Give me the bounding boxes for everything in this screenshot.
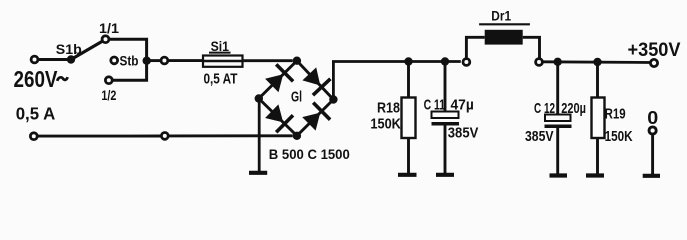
wire 0,5A to connector [38,135,162,138]
node bridge right corner [329,95,337,103]
terminal +350V [650,59,657,66]
svg-text:385V: 385V [525,128,554,145]
svg-text:Stb: Stb [120,53,139,69]
svg-text:220µ: 220µ [561,100,586,117]
contact 1/1 [102,36,109,43]
node R18 junction [404,57,412,65]
switch S1b pivot [67,55,75,63]
connector terminal bottom [161,133,168,140]
capacitor C11 [444,62,447,112]
switch S1b blade [71,41,102,59]
contact 1/2 [105,77,112,84]
svg-text:Si1: Si1 [211,38,230,54]
svg-text:S1b: S1b [56,41,82,57]
wire 0 terminal down [651,134,654,174]
wire fuse to bridge top [243,59,293,62]
svg-text:0,5 A: 0,5 A [16,104,56,124]
node C11 junction [441,57,449,65]
wire connector to bridge bottom corner [169,134,293,137]
node R19 junction [593,58,601,66]
fuse Si1 [203,60,243,62]
wire 1/1 to junction [109,39,146,61]
diode D1 (bridge upper-left) [265,74,283,92]
svg-text:Gl: Gl [291,90,302,106]
svg-text:0: 0 [647,108,658,128]
termination bar C11 [436,173,454,177]
svg-text:1/2: 1/2 [101,87,116,103]
wire bridge left corner down [258,99,261,173]
diode D3 (bridge lower-left) [265,104,283,122]
termination bar left [249,171,267,175]
svg-text:385V: 385V [448,125,479,142]
termination bar 0 [643,174,660,178]
connector terminal choke left [463,59,470,66]
wire choke right to +350V [543,60,651,64]
svg-text:150K: 150K [605,128,633,145]
svg-text:C 12: C 12 [534,100,555,117]
svg-text:B 500 C 1500: B 500 C 1500 [269,146,350,162]
wire [38,58,68,61]
resistor R18 [407,62,410,98]
svg-text:260V: 260V [14,66,59,92]
bridge rectifier Gl frame [259,61,334,136]
termination bar C12 [550,173,568,177]
inductor Dr1 leads [466,37,484,58]
svg-text:R18: R18 [377,100,400,117]
svg-text:+350V: +350V [628,40,681,61]
svg-text:1/1: 1/1 [99,20,119,36]
svg-text:Dr1: Dr1 [491,8,511,24]
wire junction to connector [147,59,161,62]
wire connector to fuse [168,59,203,62]
inductor Dr1 body [485,30,523,45]
terminal 0,5A input [30,133,37,140]
node C12 junction [554,58,562,66]
svg-text:150K: 150K [370,116,401,133]
svg-text:0,5 AT: 0,5 AT [204,71,238,88]
wire bridge right corner up to rail [333,62,460,100]
node junction switch [143,57,151,65]
contact Stb [111,57,118,64]
wire 1/2 to junction [113,61,147,80]
svg-text:47µ: 47µ [451,96,474,113]
node bridge bottom corner [293,132,301,140]
termination bar R19 [586,173,604,177]
resistor R19 [596,62,599,98]
node bridge left corner [255,94,263,102]
connector terminal choke right [536,59,543,66]
diode D2 (bridge upper-right) [302,67,320,85]
node bridge top corner [293,57,301,65]
termination bar R18 [398,173,417,177]
svg-text:R19: R19 [605,105,626,122]
svg-text:C 11: C 11 [424,96,446,113]
capacitor C12 [556,62,559,115]
connector terminal top [161,57,168,64]
diode D4 (bridge lower-right) [302,113,320,131]
terminal 260V input [31,56,38,63]
terminal 0 [649,127,656,134]
